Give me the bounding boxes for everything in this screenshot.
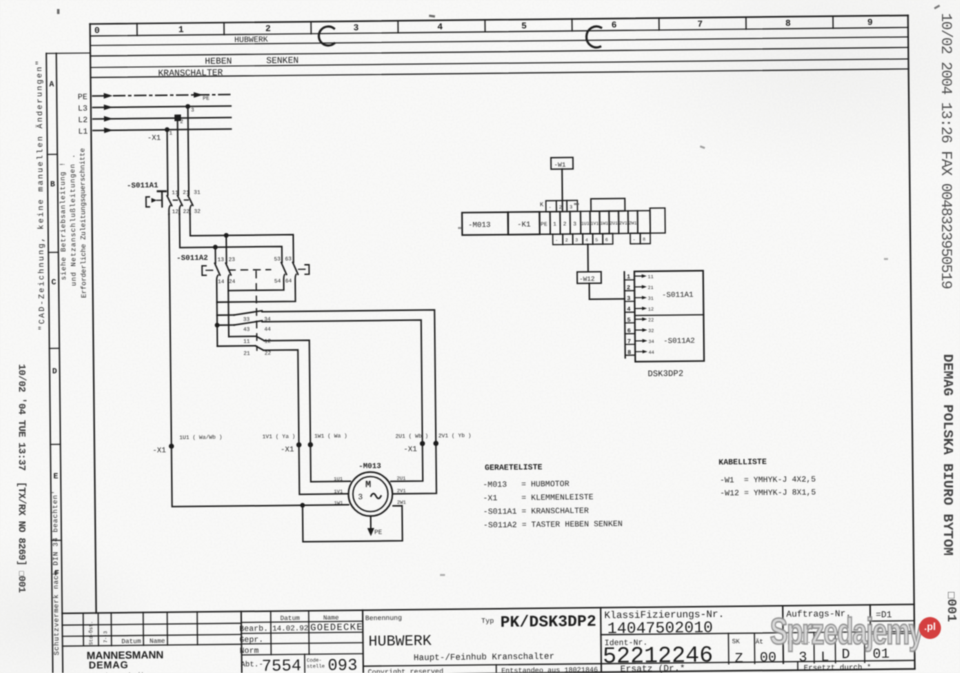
svg-text:2V1: 2V1 [619, 220, 628, 226]
watermark sprzedajemy [770, 611, 922, 653]
motor PE arrow [367, 528, 374, 536]
letter column band ticks [47, 154, 61, 540]
aux labels 33 34 [243, 316, 271, 323]
arrow marker PE terminal [194, 92, 203, 98]
svg-text:Ersetzt durch *: Ersetzt durch * [804, 664, 872, 673]
svg-text:SENKEN: SENKEN [266, 56, 299, 66]
strip bottom tag marks [555, 237, 646, 244]
vertical divider x356.5 benennung [362, 610, 365, 673]
svg-text:PE: PE [203, 95, 210, 102]
svg-text:1: 1 [178, 25, 184, 35]
svg-text:44: 44 [648, 350, 654, 356]
S011A1 mechanical dashes [173, 199, 188, 201]
divider 7554/code [304, 654, 306, 673]
svg-text:1V1: 1V1 [334, 489, 343, 495]
svg-text:6: 6 [605, 237, 608, 243]
svg-text:PE: PE [374, 529, 382, 536]
junction L3 / wire 3 [185, 104, 190, 109]
aux contact 11-12 feed [229, 335, 256, 337]
frame bottom border [63, 669, 915, 673]
scan artifact arc 1 [319, 26, 335, 45]
svg-text:Copyright reserved: Copyright reserved [368, 668, 444, 673]
motor tilde [371, 493, 381, 498]
svg-text:-W12 = YMHYK-J 8X1,5: -W12 = YMHYK-J 8X1,5 [720, 488, 816, 498]
svg-text:-S011A2 = TASTER HEBEN SENKEN: -S011A2 = TASTER HEBEN SENKEN [483, 520, 623, 530]
X1 terminal dot 1U1 [169, 444, 174, 449]
svg-text:6: 6 [627, 327, 631, 334]
svg-text:2U1 ( Wb ): 2U1 ( Wb ) [395, 432, 428, 439]
svg-text:22: 22 [183, 208, 190, 215]
svg-text:1W1 ( Wa ): 1W1 ( Wa ) [314, 432, 347, 439]
fax header right margin: timestamp [937, 13, 954, 288]
wire motor 2W1 loop to PE node [303, 504, 403, 542]
svg-text:A: A [49, 80, 54, 89]
rail PE (dash-dot) [93, 95, 231, 96]
svg-text:E: E [53, 472, 58, 481]
svg-text:-M013: -M013 [468, 222, 491, 230]
svg-text:7: 7 [627, 338, 631, 345]
svg-text:Name: Name [323, 614, 339, 621]
svg-text:2: 2 [563, 221, 566, 228]
svg-text:-: - [548, 205, 551, 211]
svg-text:34: 34 [648, 339, 654, 345]
scan speck 8 [440, 574, 445, 576]
svg-text:2V1: 2V1 [397, 488, 406, 494]
svg-text:M: M [365, 479, 371, 490]
title block top border [62, 604, 914, 613]
blatt cell dividers [814, 632, 865, 663]
frame header line 5 [91, 69, 909, 78]
svg-text:3: 3 [627, 295, 631, 302]
svg-text:12: 12 [648, 307, 654, 313]
svg-text:32: 32 [194, 208, 201, 215]
svg-text:22: 22 [264, 350, 271, 357]
wire X1-1U1 to motor 1W1 [171, 444, 348, 506]
aux contact 43-44 [234, 321, 262, 325]
svg-text:9: 9 [867, 18, 873, 28]
strip cell 3 [570, 211, 581, 234]
svg-text:43: 43 [243, 326, 250, 333]
svg-text:54: 54 [274, 278, 281, 285]
svg-text:-S011A1: -S011A1 [662, 292, 694, 300]
svg-text:-X1 = KLEMMENLEISTE: -X1 = KLEMMENLEISTE [483, 493, 594, 503]
svg-text:-: - [633, 238, 636, 243]
svg-text:-X1: -X1 [152, 447, 166, 455]
svg-text:2: 2 [565, 238, 568, 244]
svg-text:L3: L3 [78, 105, 88, 114]
svg-text:1U1: 1U1 [581, 221, 590, 227]
svg-text:8: 8 [627, 349, 631, 356]
svg-text:-: - [555, 239, 558, 244]
strip cell 1 [550, 212, 560, 235]
frame right border [908, 15, 915, 668]
svg-text:8: 8 [643, 237, 646, 243]
wire X1-1W1 to motor 1U1 [310, 444, 350, 481]
wire W1 to strip [561, 169, 563, 211]
connector pin ticks [624, 280, 635, 355]
svg-text:C: C [51, 278, 56, 287]
svg-text:7-·3: 7-·3 [103, 631, 109, 643]
aux labels 11 12 [243, 338, 271, 345]
S011A2 right bracket [305, 265, 309, 275]
svg-text:1W1: 1W1 [600, 221, 609, 227]
rail L1 [93, 129, 231, 130]
svg-text:L2: L2 [78, 116, 88, 125]
svg-text:1: 1 [627, 273, 631, 280]
wire 24 to 54 [228, 285, 284, 291]
strip PE cell [539, 212, 550, 235]
frame header line 2 [90, 37, 908, 46]
S011A2 terminal numbers top 13 23 53 63 [217, 255, 291, 263]
strip cell 2 [560, 211, 570, 234]
S011A1 actuator T stem [161, 192, 163, 207]
S011A1 contact 2 (21-22) [178, 196, 183, 215]
svg-text:Datum: Datum [280, 615, 300, 622]
S011A1 actuator link line [157, 199, 162, 201]
S011A2 terminal numbers bottom 14 24 54 64 [218, 277, 293, 285]
S011A2 contact 63-64 [293, 262, 298, 285]
vertical divider bearb/datum [271, 611, 309, 655]
strip cells 1U1..2W1 [580, 208, 665, 234]
svg-text:und Netzanschlußleitungen .: und Netzanschlußleitungen . [69, 154, 78, 286]
connector pin numbers 1-8 [627, 273, 632, 356]
strip cell labels 1U1..2W1 [581, 220, 637, 227]
svg-text:-M013: -M013 [359, 463, 382, 471]
strip top tag cells [546, 200, 578, 211]
svg-text:HUBWERK: HUBWERK [368, 633, 431, 651]
wire 34 right to vertical [262, 310, 436, 445]
svg-text:-K1: -K1 [517, 221, 531, 229]
vertical divider x235 [240, 611, 243, 673]
svg-text:22: 22 [648, 317, 654, 323]
svg-text:7554: 7554 [262, 656, 302, 673]
scan speck 6 [934, 5, 940, 10]
svg-text:Datum: Datum [121, 638, 141, 645]
svg-text:2V1 ( Yb ): 2V1 ( Yb ) [438, 432, 471, 439]
fax header right margin: page no [944, 592, 959, 622]
cable -W12 box [577, 272, 601, 284]
X1 terminal dot 2U1 [420, 441, 425, 446]
svg-text:-S011A2: -S011A2 [176, 255, 208, 263]
scan speck 3 [458, 227, 462, 229]
svg-text:KABELLISTE: KABELLISTE [719, 458, 767, 468]
fax header right margin: sender [939, 354, 955, 556]
svg-text:32: 32 [648, 328, 654, 334]
junction dot 1W1/2W1 loop [300, 503, 305, 508]
strip wide blank box [591, 198, 625, 211]
motor PE stub [370, 516, 372, 529]
strip bottom tag cells [553, 233, 651, 245]
svg-text:0: 0 [94, 26, 100, 36]
wire 14 to 64 [217, 285, 296, 302]
X1 terminal dot 1V1 [296, 442, 301, 447]
svg-text:33: 33 [243, 316, 250, 323]
junction dot wire32/23 [224, 233, 229, 238]
svg-text:-W1 = YMHYK-J 4X2,5: -W1 = YMHYK-J 4X2,5 [720, 475, 816, 485]
svg-text:093: 093 [328, 656, 358, 673]
connector divider line [635, 314, 704, 317]
S011A2 left bracket [202, 266, 206, 276]
X1 terminal dot 1W1 [308, 442, 313, 447]
wire 44 right to vertical [262, 320, 422, 445]
svg-text:11: 11 [243, 338, 250, 345]
junction dot wire22/13 [213, 245, 218, 250]
svg-text:KRANSCHALTER: KRANSCHALTER [158, 68, 224, 79]
S011A1 contact 3 (31-32) [188, 195, 193, 214]
svg-text:DEMAG: DEMAG [89, 660, 129, 671]
svg-text:5: 5 [627, 317, 631, 324]
svg-text:GOEDECKE: GOEDECKE [310, 622, 362, 634]
S011A1 actuator bracket [146, 197, 149, 207]
svg-text:8: 8 [785, 19, 791, 29]
svg-text:Std-Öst.: Std-Öst. [87, 621, 94, 645]
svg-text:53: 53 [274, 256, 281, 263]
motor pin labels left [334, 476, 343, 506]
motor outer circle [348, 472, 392, 516]
wire 24-feed down to aux row 11/12 [227, 291, 229, 337]
svg-text:2W1: 2W1 [629, 220, 638, 226]
svg-text:2U1: 2U1 [397, 476, 406, 482]
frame header line 3 [90, 47, 908, 56]
svg-text:4: 4 [437, 22, 443, 32]
svg-text:3: 3 [353, 23, 359, 33]
svg-text:-S011A1: -S011A1 [127, 182, 159, 190]
watermark .pl red circle [919, 617, 941, 639]
X1 wire labels [179, 431, 471, 442]
svg-text:1U1: 1U1 [334, 476, 343, 482]
frame header line 4 [90, 59, 908, 68]
svg-text:6: 6 [611, 20, 617, 30]
svg-text:-M013 = HUBMOTOR: -M013 = HUBMOTOR [483, 480, 570, 490]
svg-text:2W1: 2W1 [397, 500, 406, 506]
svg-text:-X1: -X1 [280, 446, 294, 454]
scan speck 2 [574, 203, 579, 205]
arrow on L2 rail [104, 116, 113, 122]
svg-text:1U1 ( Wa/Wb ): 1U1 ( Wa/Wb ) [179, 434, 222, 441]
klassifizierung/ident row line [601, 631, 914, 634]
wire X1-2V1 to motor 2V1 [392, 443, 436, 493]
svg-text:24: 24 [229, 278, 236, 285]
S011A1 terminal numbers top 11 21 31 [172, 189, 201, 196]
scan speck 1 [429, 15, 435, 18]
strip top tag marks [548, 204, 572, 210]
wire X1-2U1 to motor 2U1 [390, 444, 422, 482]
svg-text:-X1: -X1 [147, 135, 161, 143]
divider copyright/entstanden [495, 665, 497, 673]
aux contact 43-44 feed [217, 324, 234, 326]
wire L3 down to S011A1 pin 31 [187, 106, 190, 194]
svg-text:14.02.92: 14.02.92 [272, 625, 308, 633]
svg-text:3: 3 [569, 204, 572, 210]
wire branch to S011A2-23 [225, 235, 227, 263]
svg-text:21: 21 [243, 350, 250, 357]
svg-text:-W12: -W12 [579, 276, 595, 283]
wire W12 to connector [589, 283, 624, 299]
cable -W1 box [551, 157, 573, 169]
wire from S011A1-12 long left drop to X1 [169, 214, 171, 446]
svg-text:DSK3DP2: DSK3DP2 [648, 369, 684, 379]
bearb rows lines [241, 621, 363, 655]
svg-text:PE: PE [78, 93, 88, 102]
left letter column inner line [56, 53, 63, 673]
=D1 row lines [870, 621, 914, 634]
aux contact 33-34 feed [217, 314, 234, 316]
S011A1 actuator arrow [151, 198, 157, 203]
S011A1 terminal numbers bottom 12 22 32 [172, 208, 201, 215]
arrow on L1 rail [104, 127, 113, 133]
frame top border [90, 15, 908, 24]
svg-text:Gepr.: Gepr. [239, 636, 263, 645]
svg-text:64: 64 [285, 277, 292, 284]
svg-text:B: B [50, 180, 55, 189]
vertical divider x776.6 auftrags [782, 606, 785, 663]
svg-text:Z: Z [735, 651, 744, 667]
svg-text:Bearb.: Bearb. [239, 625, 268, 634]
svg-text:L1: L1 [78, 128, 88, 137]
wire from S011A1-22 down, right to S011A2-53 [179, 213, 282, 264]
frame left border [90, 24, 96, 613]
svg-text:2U1: 2U1 [610, 220, 619, 226]
svg-text:stelle: stelle [307, 664, 325, 670]
wire strip to W12 [587, 244, 589, 271]
rail L3 [93, 106, 231, 107]
svg-text:3: 3 [575, 237, 578, 243]
svg-text:D: D [52, 367, 57, 376]
scan speck 4 [700, 145, 705, 149]
svg-text:Ät: Ät [755, 637, 763, 645]
strip -K1 cell [508, 212, 540, 235]
svg-text:siehe Betriebsanleitung !: siehe Betriebsanleitung ! [59, 162, 68, 280]
S011A1 actuator T bar [158, 190, 166, 192]
svg-text:Benennung: Benennung [365, 615, 402, 623]
svg-text:31: 31 [648, 296, 654, 302]
S011A1 contact 1 (11-12) [167, 196, 172, 215]
wire L1 down to S011A1 pin 11 [166, 130, 169, 195]
svg-text:Abt.-: Abt.- [241, 661, 264, 669]
left letter column outer line [46, 53, 53, 673]
svg-text:21: 21 [648, 285, 654, 291]
revision table row lines [62, 623, 241, 646]
X1 labels [152, 445, 417, 457]
arrow on L3 rail [104, 104, 113, 110]
svg-text:52212246: 52212246 [603, 643, 714, 670]
wire L2 down to S011A1 pin 21 [176, 118, 179, 195]
svg-text:PK/DSK3DP2: PK/DSK3DP2 [500, 613, 596, 632]
connector pin column line [623, 272, 626, 358]
aux contact 21-22 feed [217, 345, 255, 347]
svg-text:1V1: 1V1 [591, 221, 600, 227]
vertical divider x864 =D1 [869, 605, 871, 634]
svg-text:1W1: 1W1 [334, 500, 343, 506]
aux contact 21-22 [255, 346, 263, 351]
svg-text:PE: PE [541, 221, 548, 228]
frame number band bottom line [90, 27, 908, 36]
aux mech dashed link vertical [255, 271, 258, 350]
motor pin labels right [397, 476, 406, 506]
scan artifact arc 2 [586, 26, 601, 47]
rail L2 [93, 118, 231, 119]
X1 terminal dot 2V1 [433, 441, 438, 446]
svg-text:4: 4 [627, 306, 631, 313]
wire 22 right to vertical [263, 350, 298, 445]
fax header left margin [15, 364, 26, 592]
wire from S011A1-32 down, right to S011A2-63 [190, 213, 294, 264]
svg-text:2: 2 [627, 284, 631, 291]
connector pin wire labels [648, 274, 655, 356]
S011A2 contact 13-14 [215, 263, 220, 286]
svg-text:13: 13 [217, 256, 224, 263]
svg-text:Typ: Typ [481, 618, 494, 626]
motor inner circle [353, 476, 388, 511]
svg-text:GERAETELISTE: GERAETELISTE [485, 463, 543, 473]
SK cell divider [728, 633, 754, 664]
revision table verticals [83, 612, 197, 646]
S011A2 bracket stub left [206, 269, 212, 271]
wire 12 right to vertical [264, 340, 310, 445]
aux contact 11-12 [256, 336, 264, 341]
svg-text:4: 4 [585, 237, 588, 243]
wire X1-1V1 to motor 1V1 [299, 444, 349, 494]
junction L1 / wire 1 [165, 127, 170, 132]
svg-text:12: 12 [172, 208, 179, 215]
scan speck 5 [57, 9, 60, 14]
svg-text:K: K [540, 201, 544, 208]
svg-text:HUBWERK: HUBWERK [234, 36, 268, 45]
connector body box [634, 271, 704, 362]
S011A2 contact 23-24 [226, 263, 231, 286]
svg-text:14047502010: 14047502010 [607, 619, 713, 638]
svg-text:-X1: -X1 [403, 446, 417, 454]
scan speck 7 [884, 258, 888, 260]
aux labels 21 22 [243, 350, 271, 357]
S011A2 mechanical dashed link [229, 269, 271, 271]
svg-text:5: 5 [521, 21, 527, 31]
svg-text:Haupt-/Feinhub Kranschalter: Haupt-/Feinhub Kranschalter [414, 652, 555, 663]
svg-text:3: 3 [358, 493, 363, 502]
wire branch to S011A2-13 [214, 247, 216, 263]
svg-text:5: 5 [595, 237, 598, 243]
svg-text:21: 21 [183, 189, 190, 196]
svg-text:-S011A1 = KRANSCHALTER: -S011A1 = KRANSCHALTER [483, 507, 589, 517]
svg-text:1V1 ( Ya ): 1V1 ( Ya ) [262, 433, 295, 440]
aux contact 33-34 [234, 311, 262, 315]
bottom row line [363, 660, 914, 666]
strip main row: -M013 cell [462, 212, 508, 235]
svg-text:HEBEN: HEBEN [205, 57, 232, 67]
svg-text:Name: Name [149, 638, 165, 645]
svg-text:2: 2 [559, 205, 562, 211]
junction dot aux 43 [215, 323, 220, 328]
svg-text:Erforderliche Zuleitungsquersc: Erforderliche Zuleitungsquerschnitte [79, 148, 89, 298]
svg-text:Norm: Norm [240, 647, 259, 656]
connector pin arrows [635, 274, 648, 353]
svg-text:7: 7 [697, 20, 703, 30]
svg-text:11: 11 [648, 274, 654, 280]
scan specks overlay [57, 5, 940, 576]
junction L2 / wire 2 (square terminal) [174, 115, 181, 122]
S011A2 bracket stub right [299, 268, 305, 270]
svg-text:-W1: -W1 [554, 162, 566, 169]
aux labels 43 44 [243, 326, 271, 333]
svg-text:3: 3 [573, 220, 576, 227]
letter column top tick [46, 52, 90, 54]
svg-text:14: 14 [218, 278, 225, 285]
divider ersetzt [797, 662, 799, 670]
wire 14-feed down to aux row 21/22 [216, 302, 218, 346]
number band ticks [137, 16, 833, 35]
S011A2 contact 53-54 [281, 262, 286, 285]
svg-text:63: 63 [285, 255, 292, 262]
